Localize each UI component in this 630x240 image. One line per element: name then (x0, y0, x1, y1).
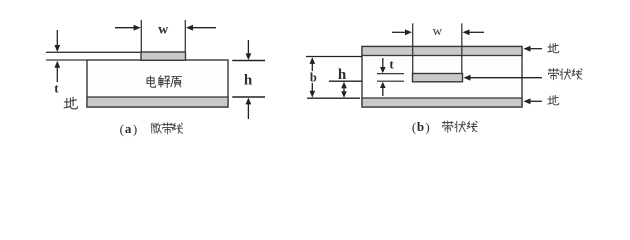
svg-text:): ) (425, 120, 429, 135)
label 带状线 right (548, 68, 582, 79)
dielectric outer rectangle (362, 47, 522, 108)
t dimension down arrow (54, 30, 60, 52)
b dimension double arrow (310, 57, 316, 98)
top ground plane band (362, 47, 522, 56)
ground plane band (bottom, gray) (87, 97, 228, 107)
w arrow left (pointing right) (115, 25, 141, 31)
w extension line right (461, 23, 463, 73)
center conductor strip (413, 74, 463, 82)
caption 带状线 (442, 121, 477, 132)
b top tick (306, 56, 362, 58)
w extension line right (184, 20, 186, 52)
ground label 地 (left) (64, 97, 77, 108)
t dimension up arrow (54, 61, 60, 82)
b label (on white patch) (310, 71, 317, 85)
svg-text:t: t (54, 81, 59, 96)
dielectric substrate rectangle (87, 60, 228, 107)
h bottom tick (232, 96, 265, 98)
w arrow right (pointing left) (463, 29, 485, 35)
label 地 top right (548, 43, 559, 53)
h up arrow (246, 98, 252, 119)
t up arrow (380, 82, 386, 96)
h dimension double arrow (341, 82, 347, 98)
label 地 bottom right (548, 95, 559, 105)
svg-text:b: b (310, 71, 317, 85)
caption 微带线 (151, 123, 183, 134)
svg-text:t: t (389, 56, 394, 71)
svg-text:): ) (133, 122, 137, 137)
top ground pointer arrow (524, 46, 543, 52)
svg-text:w: w (433, 23, 443, 38)
t bottom tick (377, 80, 404, 82)
extension line at strip-top level (46, 51, 141, 53)
h top tick (232, 60, 265, 62)
bottom ground pointer arrow (524, 98, 543, 104)
t top tick (377, 73, 404, 75)
stripline pointer arrow (to center strip) (464, 75, 543, 81)
svg-text:b: b (417, 119, 424, 134)
h down arrow (246, 40, 252, 60)
svg-text:(: ( (412, 120, 416, 135)
t down arrow (380, 58, 386, 73)
conductor strip on top (141, 52, 186, 60)
w arrow left (pointing right) (392, 29, 412, 35)
dielectric label 电解质 (147, 76, 182, 88)
svg-text:a: a (125, 121, 132, 136)
w extension line left (140, 20, 142, 52)
svg-text:w: w (158, 23, 169, 38)
svg-text:h: h (244, 73, 253, 89)
extension line at substrate-top level (46, 59, 87, 61)
w arrow right (pointing left) (186, 25, 216, 31)
bottom ground plane band (362, 98, 522, 107)
svg-text:(: ( (120, 122, 124, 137)
b bottom tick (307, 97, 360, 99)
svg-text:h: h (338, 67, 347, 83)
w extension line left (412, 23, 414, 73)
h tick (329, 80, 362, 82)
